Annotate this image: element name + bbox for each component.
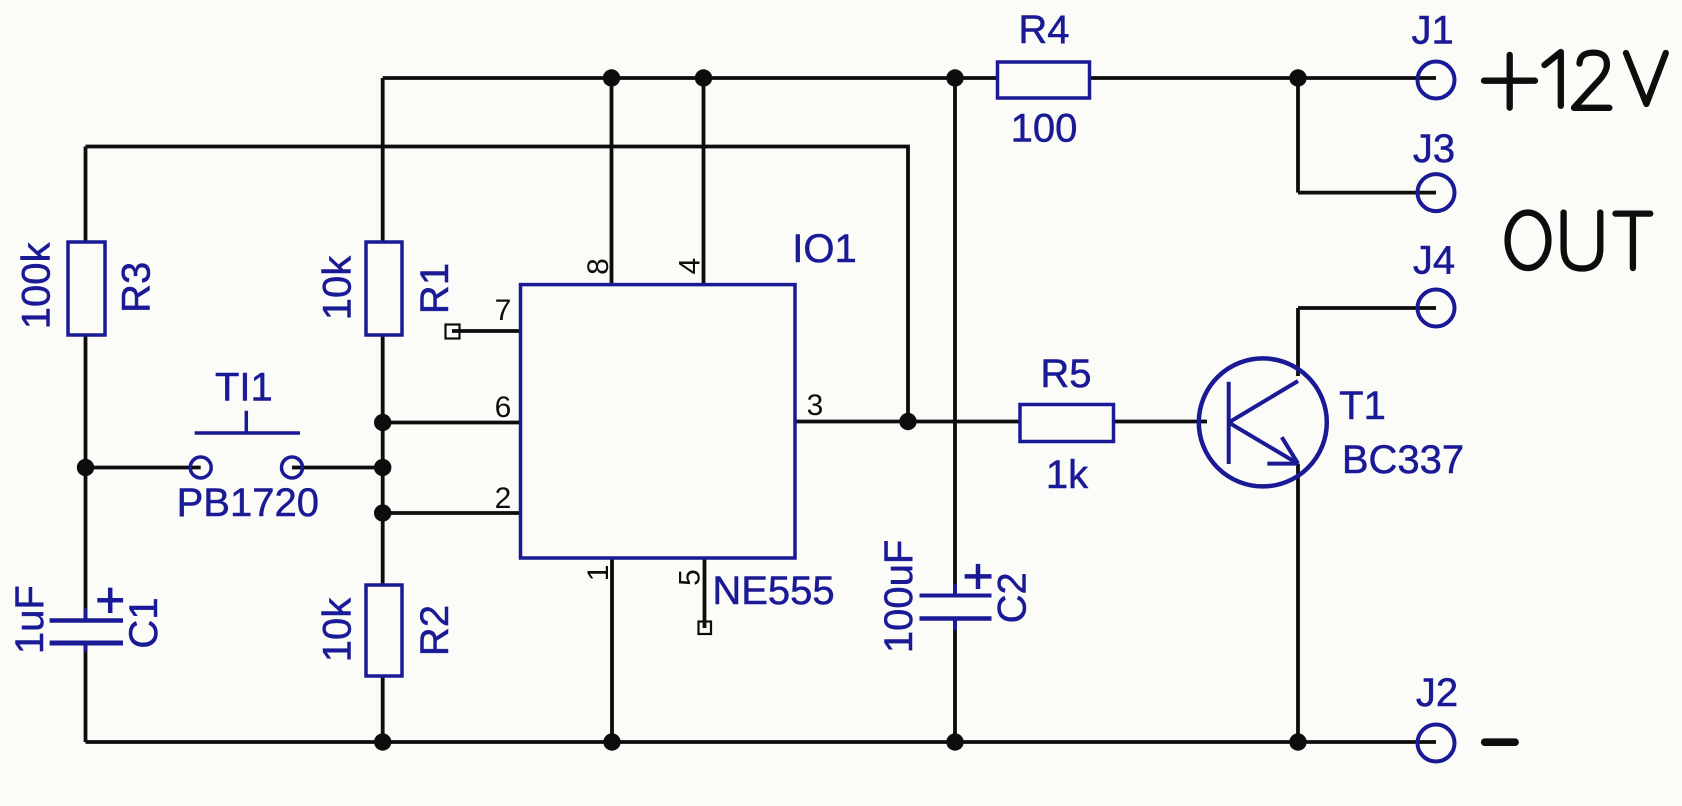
svg-text:TI1: TI1 bbox=[215, 366, 273, 410]
svg-text:NE555: NE555 bbox=[712, 569, 834, 613]
svg-text:4: 4 bbox=[674, 258, 707, 275]
svg-text:BC337: BC337 bbox=[1342, 438, 1464, 482]
svg-text:100k: 100k bbox=[15, 242, 59, 330]
svg-text:5: 5 bbox=[674, 569, 707, 586]
svg-text:J4: J4 bbox=[1413, 239, 1455, 283]
svg-text:100uF: 100uF bbox=[877, 540, 921, 653]
svg-text:C1: C1 bbox=[122, 597, 166, 648]
svg-text:J2: J2 bbox=[1416, 671, 1458, 715]
svg-text:C2: C2 bbox=[991, 572, 1035, 623]
svg-text:3: 3 bbox=[807, 389, 824, 422]
svg-text:1k: 1k bbox=[1046, 453, 1089, 497]
svg-text:7: 7 bbox=[495, 294, 512, 327]
svg-text:R1: R1 bbox=[413, 263, 457, 314]
svg-text:R3: R3 bbox=[115, 262, 159, 313]
svg-text:8: 8 bbox=[582, 258, 615, 275]
svg-text:J3: J3 bbox=[1413, 127, 1455, 171]
svg-text:R5: R5 bbox=[1040, 352, 1091, 396]
svg-text:100: 100 bbox=[1011, 106, 1078, 150]
svg-text:10k: 10k bbox=[315, 597, 359, 662]
svg-text:10k: 10k bbox=[315, 255, 359, 320]
svg-text:1uF: 1uF bbox=[8, 585, 52, 654]
svg-text:J1: J1 bbox=[1411, 8, 1453, 52]
svg-text:R2: R2 bbox=[413, 605, 457, 656]
svg-text:1: 1 bbox=[582, 565, 615, 582]
svg-text:2: 2 bbox=[495, 482, 512, 515]
svg-text:T1: T1 bbox=[1339, 384, 1386, 428]
svg-text:6: 6 bbox=[495, 391, 512, 424]
svg-text:PB1720: PB1720 bbox=[177, 481, 319, 525]
svg-text:R4: R4 bbox=[1018, 8, 1069, 52]
svg-text:IO1: IO1 bbox=[792, 227, 856, 271]
